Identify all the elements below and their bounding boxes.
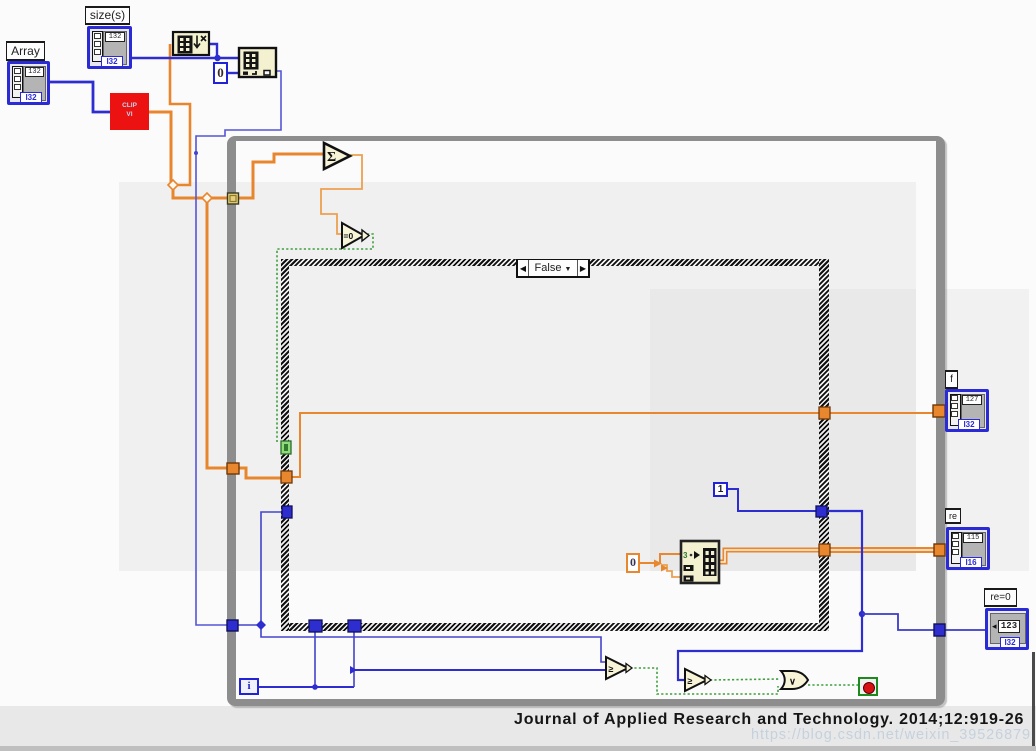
wire: orange branch down into node input	[661, 565, 682, 577]
wire: orange node1-input drop (sort input riser)	[170, 44, 190, 185]
wire: orange sum output zigzag to =0	[321, 155, 362, 234]
indicator: numeric right bottom	[985, 608, 1029, 650]
node: sort-1d-array icon	[173, 32, 209, 55]
constant: 0 (blue)	[213, 62, 228, 84]
label: re=0 (indicator 3)	[984, 588, 1017, 607]
while loop border	[227, 136, 945, 706]
bottom dark strip	[0, 746, 1036, 751]
tunnel: loop left blue	[227, 620, 238, 631]
tunnel: case left orange	[281, 471, 292, 483]
constant: 0 (orange)	[626, 553, 640, 573]
label: Array	[6, 41, 45, 61]
wire: orange insert output to case tunnel	[719, 550, 830, 562]
svg-text:≥: ≥	[688, 676, 693, 686]
selector label: False	[516, 259, 590, 278]
wire: green dotted comparator1 to OR	[630, 668, 778, 694]
wire: blue node1 output down to junction	[209, 44, 217, 58]
case structure border: bottom	[281, 623, 829, 631]
junction dot blue i-wire	[312, 684, 318, 690]
wire: blue tunnel drop 2	[353, 632, 355, 687]
tunnel: loop left yellow (array in)	[228, 193, 239, 204]
wire: blue loop tunnel to re=0 indicator	[944, 629, 986, 631]
svg-text:=0: =0	[344, 231, 354, 241]
junction diamond blue	[256, 620, 266, 630]
node: index array icon	[239, 48, 276, 77]
wire: green dotted =0 to case b tunnel	[277, 234, 373, 442]
node: comparator2 triangle (>=0)	[685, 669, 707, 691]
wire: orange CLIP output	[149, 112, 171, 183]
tunnel: case bottom blue 2	[348, 620, 361, 632]
tunnel: case right orange bottom	[819, 544, 830, 556]
subVI: CLIP (red)	[110, 93, 149, 130]
label: f (indicator 1)	[945, 370, 958, 389]
background panel A (light gray workspace band)	[119, 182, 916, 571]
wire: blue index-array output long drop to loop tunnel	[196, 71, 281, 625]
label: re (indicator 2)	[945, 508, 961, 524]
label: size(s)	[85, 6, 130, 25]
node: sum (add array elements) triangle	[324, 143, 350, 169]
wire: thick orange array between case and loop tunnels	[829, 547, 936, 553]
junction dot blue right	[859, 611, 865, 617]
wire: blue down and across to comparator top input	[261, 625, 607, 662]
wire: green dotted comparator2 to OR	[710, 679, 780, 680]
tunnel: loop right orange top	[933, 405, 945, 417]
tunnel: case right orange top	[819, 407, 830, 419]
case structure border: right	[819, 259, 829, 631]
wire: orange staircase to sum node	[239, 154, 325, 198]
text: journal citation	[514, 711, 1024, 729]
wire: blue to loop tunnel right	[862, 614, 935, 630]
tunnel: loop left orange	[227, 463, 239, 474]
wire: orange 0-constant to insert node	[640, 562, 660, 564]
indicator: I16 right middle	[946, 527, 990, 570]
wire: green dotted OR to stop	[808, 684, 858, 686]
node: equal-to-zero triangle	[342, 223, 364, 248]
wire: blue up to case tunnel	[261, 512, 283, 625]
node: OR gate	[781, 671, 808, 689]
wire: blue tunnel drop 1	[314, 632, 316, 687]
svg-text:3: 3	[683, 551, 688, 560]
svg-text:Σ: Σ	[327, 150, 336, 165]
wire: orange drop to lower loop tunnel	[207, 199, 228, 468]
case structure border: top	[281, 259, 829, 266]
tunnel: loop right blue bottom	[934, 624, 945, 636]
junction arrow orange 2	[661, 565, 668, 572]
wire: thick blue Array terminal to CLIP	[50, 82, 110, 112]
tunnel: case left green boolean b	[281, 441, 291, 454]
wire: blue i terminal run	[259, 686, 354, 688]
tunnel: case bottom blue 1	[309, 620, 322, 632]
terminal: Array control	[7, 61, 50, 105]
constant: 1 (blue)	[713, 482, 728, 497]
wire: blue from case tunnel down-left to comparator2	[678, 511, 862, 680]
svg-text:≥: ≥	[609, 664, 614, 674]
node: comparator1 triangle (>=)	[606, 657, 628, 679]
tunnel: case left blue	[282, 506, 292, 518]
text: watermark	[751, 727, 1031, 743]
wire: orange inside loop to case tunnel	[238, 468, 283, 478]
case structure border: left	[281, 259, 289, 631]
wire: orange junction run to loop tunnel	[173, 187, 233, 198]
wire: blue to comparator lower input	[354, 669, 607, 671]
junction diamond orange 2	[202, 193, 212, 203]
window edge line right	[1032, 652, 1035, 746]
junction dot blue	[214, 55, 220, 61]
node: replace array subset icon	[681, 541, 719, 583]
wire: orange long run across case to right indicator	[291, 413, 946, 477]
tunnel: case right blue	[816, 506, 827, 517]
terminal: size(s) control	[87, 26, 132, 69]
wire: blue size(s) to index-array	[131, 57, 238, 59]
svg-text:∨: ∨	[789, 677, 796, 688]
junction dot small	[194, 151, 198, 155]
tunnel: loop right orange middle	[934, 544, 945, 556]
bottom gray band	[0, 706, 1036, 751]
wire: blue from loop tunnel to junction	[238, 624, 261, 626]
background panel C (right margin gray)	[944, 289, 1029, 571]
junction arrow orange 1	[654, 560, 662, 568]
indicator: I32 right top	[945, 389, 989, 432]
wire: orange branch up into node input	[660, 554, 682, 563]
background panel B (darker gray overlap)	[650, 289, 916, 571]
wire: blue 0-constant to index-array	[228, 72, 239, 74]
control: stop button	[858, 677, 878, 696]
junction arrow blue	[350, 666, 357, 674]
terminal: i iteration	[239, 678, 259, 695]
wire: blue 1-constant to case tunnel	[728, 489, 817, 511]
junction diamond orange 1	[168, 180, 178, 190]
